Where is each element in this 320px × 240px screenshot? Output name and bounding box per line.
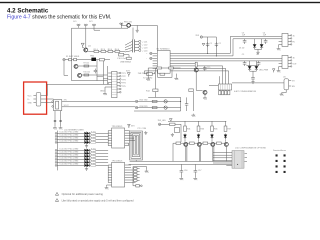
svg-text:C6: C6 <box>256 54 258 56</box>
wire Y1 out row2 <box>62 106 135 108</box>
diode D1 <box>254 39 256 45</box>
note symbol 1 <box>55 192 58 195</box>
test point TP1 <box>63 58 65 60</box>
svg-text:EN: EN <box>292 86 295 88</box>
wire config drop 2 <box>222 66 224 84</box>
capacitor C16 <box>180 171 184 177</box>
ground J5 <box>277 47 281 50</box>
svg-text:3V3: 3V3 <box>89 21 92 23</box>
capacitor C5 <box>243 61 247 66</box>
wire base ch1 <box>173 143 184 161</box>
svg-text:FB2: FB2 <box>90 56 95 58</box>
wire bus vertical a <box>96 60 98 81</box>
wire bus row1 right <box>177 52 231 54</box>
wire J7 spine <box>133 167 140 186</box>
pin Y1 left circles <box>52 101 54 103</box>
svg-text:+: + <box>146 53 148 55</box>
pins J5 right <box>288 35 290 44</box>
pin J2-1 <box>135 40 139 42</box>
diode array D7 <box>84 138 89 142</box>
pin circles J6 <box>291 57 292 58</box>
op-amp U1 body <box>157 50 170 73</box>
connector J3 body <box>112 71 117 97</box>
wire emitter ch1 <box>185 147 187 162</box>
capacitor C13 plates <box>59 120 61 121</box>
wire bus vertical b <box>102 61 104 84</box>
resistor R27 <box>91 159 96 161</box>
wire J1 top net <box>46 84 48 95</box>
wire decoup drop b <box>194 164 196 170</box>
wire row S8 <box>55 161 108 164</box>
capacitor C15 <box>203 66 206 71</box>
pins J6 left extra <box>279 64 282 67</box>
transistor Q1 <box>84 48 88 52</box>
svg-text:Figure 4-7 shows the schematic: Figure 4-7 shows the schematic for this … <box>7 14 111 20</box>
wire D18 to Q11 <box>225 139 227 141</box>
pin J3-3 <box>117 78 119 80</box>
resistor R3 <box>108 50 113 52</box>
ground J7 <box>145 170 149 173</box>
junction VCC b <box>216 55 217 56</box>
IC U2 body <box>112 128 125 148</box>
wire JP3 stub <box>94 28 100 30</box>
svg-text:3V3_LED: 3V3_LED <box>158 120 167 122</box>
resistor R21 <box>91 136 96 138</box>
wire D17 to Q10 <box>211 139 213 141</box>
resistor R22 <box>91 139 96 141</box>
legend square r4c2 <box>284 171 286 173</box>
ground X1 <box>171 133 174 136</box>
transistor Q4 <box>164 100 167 103</box>
wire VCC rail <box>203 36 217 38</box>
test point TP8 <box>158 123 160 125</box>
capacitor C1 <box>206 42 209 47</box>
pin U4 bottom <box>282 90 287 93</box>
wire midbox top <box>134 97 181 111</box>
svg-text:D-: D- <box>28 99 30 101</box>
resistor R37 <box>224 126 227 131</box>
connector J2 body bars <box>132 39 134 52</box>
test point TP7 <box>136 185 140 187</box>
svg-text:J6: J6 <box>293 57 295 59</box>
wire row S1 <box>55 135 108 138</box>
power flag 3V3 at J3 <box>127 73 130 77</box>
wire bus row6 <box>177 65 223 67</box>
wire LED ch4 drop <box>225 121 227 126</box>
svg-text:TPD12S521: TPD12S521 <box>112 126 124 128</box>
wire Y1 bottom drop b <box>60 111 62 127</box>
capacitor C10 <box>119 53 124 56</box>
svg-text:3V3: 3V3 <box>126 71 130 73</box>
wire TP1 row <box>65 59 110 61</box>
resistor R17 <box>195 62 197 67</box>
legend square r3c1 <box>276 165 278 167</box>
wire D1 D2 join <box>255 48 262 51</box>
pin U4 mid <box>289 85 292 87</box>
wire nest loop 4 <box>134 135 138 155</box>
pin J1 stubs <box>33 96 36 103</box>
pin J3-1 <box>117 72 119 74</box>
wire row S5 <box>55 152 108 155</box>
test point TP4 VCC <box>200 36 202 38</box>
ground probe b <box>175 77 179 80</box>
wire nest loop 2 <box>131 132 141 158</box>
svg-text:Denotes/Items: Denotes/Items <box>273 149 286 152</box>
wire probe loop <box>158 70 172 77</box>
pins J6 right <box>288 57 290 66</box>
transistor Q2 <box>74 64 78 68</box>
power flag U2 <box>128 124 131 128</box>
wire loop bottom <box>72 60 108 81</box>
wire regulator feed <box>232 82 284 84</box>
wire row S2 <box>55 138 108 141</box>
wire emitter ch3 <box>212 147 214 162</box>
ground U3 <box>105 186 109 189</box>
transistor Q7 <box>203 90 207 94</box>
wire VCC drop a <box>207 37 209 53</box>
capacitor C14 <box>185 102 188 107</box>
ground Q6 chain <box>192 114 196 117</box>
ground Q7 <box>203 96 207 99</box>
svg-text:U1 TUSB3410: U1 TUSB3410 <box>157 49 171 51</box>
jumper shunt JP5 <box>222 91 224 95</box>
connector J3 inner hatch <box>112 74 117 95</box>
resistor R20 <box>91 133 96 135</box>
diode array D5 <box>84 132 89 136</box>
wire D15 to Q8 <box>184 139 186 141</box>
wire D16 to Q9 <box>198 139 200 141</box>
jumper shunt JP4 <box>219 91 221 95</box>
wire D3 D4 join <box>250 70 257 78</box>
svg-text:TP2: TP2 <box>122 76 127 78</box>
svg-text:R35: R35 <box>214 128 217 130</box>
svg-text:U4: U4 <box>283 77 285 79</box>
power flag C1 <box>202 43 205 45</box>
ground nest <box>144 131 147 134</box>
connector J2 USB fanned pins <box>125 41 132 52</box>
wire bus row2 right <box>177 55 234 57</box>
wire Q6 emitter <box>196 72 202 90</box>
diode D3 <box>249 61 251 66</box>
wire bottom rail 1 <box>130 160 245 162</box>
wire L1 right to U1 top <box>137 25 157 50</box>
legend square r3c2 <box>284 165 286 167</box>
wire row S7 <box>55 158 108 161</box>
wire nest loop 5 <box>135 137 137 154</box>
wire config drop 4 <box>228 71 230 84</box>
wire row S3 <box>55 141 108 144</box>
wire EN row <box>161 124 181 142</box>
wire LED ch2 drop <box>198 121 200 126</box>
crystal Y2 body <box>147 72 152 75</box>
connector J1 body <box>36 93 41 106</box>
junction VCC a <box>207 53 208 54</box>
svg-text:1V8 PROBE: 1V8 PROBE <box>138 73 150 75</box>
svg-text:IN: IN <box>293 41 296 43</box>
svg-text:+ C21: + C21 <box>142 41 148 43</box>
svg-text:GND: GND <box>28 102 33 104</box>
svg-text:P2 / COM: P2 / COM <box>138 128 147 130</box>
wire LED diodes feed <box>246 64 258 66</box>
inductor L1 <box>127 24 131 28</box>
capacitor C6 <box>257 61 261 66</box>
transistor Q6 <box>194 68 198 72</box>
test point TP5 <box>135 100 137 102</box>
transistor Q10 <box>211 142 215 146</box>
svg-text:+ C24: + C24 <box>142 50 148 52</box>
wire U2 pins 6-7 join <box>128 143 130 146</box>
diode array D14 <box>84 164 89 168</box>
wire left vertical drop <box>71 28 73 59</box>
resistor R30 <box>170 123 176 125</box>
test point TP2 <box>150 52 152 54</box>
wire nest loop 1 <box>130 131 143 160</box>
resistor R18 <box>189 89 194 92</box>
wire R14 down <box>154 92 156 98</box>
connector J6 body <box>282 55 288 68</box>
capacitor C12 plates <box>54 120 56 121</box>
ground U4 <box>280 93 284 96</box>
wire bus row4 rail <box>177 60 283 62</box>
capacitor C2 <box>215 42 218 47</box>
ground LCD group1 <box>85 144 88 147</box>
pins U3 left <box>108 165 111 183</box>
transistor Q3 <box>78 73 82 77</box>
resistor R7 <box>127 57 132 59</box>
wire top supply rail <box>72 27 129 29</box>
legend square r2c2 <box>284 160 286 162</box>
svg-text:3V3: 3V3 <box>131 126 134 128</box>
wire Y1 bottom drop a <box>54 111 56 127</box>
svg-text:R37: R37 <box>228 128 231 130</box>
resistor R35 <box>211 126 214 131</box>
svg-text:3V3: 3V3 <box>195 35 199 37</box>
svg-text:GND: GND <box>100 90 105 92</box>
IC U3 body <box>112 162 125 187</box>
crystal Y1 body <box>53 100 61 111</box>
wire row S6 <box>55 155 108 158</box>
note symbol 2 <box>55 199 58 202</box>
pin J3-6 <box>117 88 119 90</box>
power flag LED rail <box>169 119 172 122</box>
wire rail2 turn up <box>233 39 282 56</box>
wire base ch2 <box>187 143 197 161</box>
svg-text:TPD12S521: TPD12S521 <box>112 161 124 163</box>
jumper shunt JP7 <box>228 91 230 95</box>
wire nest stubs <box>129 131 137 162</box>
svg-text:C10 0.1uF: C10 0.1uF <box>117 58 127 60</box>
legend square r1c2 <box>284 154 286 156</box>
svg-text:C16: C16 <box>184 170 187 172</box>
resistor R26 <box>91 156 96 158</box>
wire LCD bus spine <box>57 131 59 171</box>
ground probe a <box>146 78 150 81</box>
wire gnd b stub <box>175 74 177 77</box>
svg-text:OUT: OUT <box>293 63 298 65</box>
wire Q1 emitter row <box>88 50 125 52</box>
wire config left feed <box>209 85 218 87</box>
wire base ch4 <box>214 143 224 161</box>
resistor R32 base ch1 <box>176 142 181 144</box>
pin J2-2 <box>135 43 139 45</box>
pins U1 left <box>153 53 158 71</box>
svg-text:C2: C2 <box>218 43 220 45</box>
junction midbox <box>180 101 181 102</box>
svg-text:C5: C5 <box>242 54 244 56</box>
wire TP1 down <box>64 61 68 76</box>
wire J2 vertical feed <box>132 28 134 40</box>
diode array D6 <box>84 135 89 139</box>
legend square r1c1 <box>276 154 278 156</box>
svg-text:FB1 220: FB1 220 <box>124 21 133 23</box>
connector J7 pins <box>134 168 137 170</box>
wire bus row8 <box>177 70 229 72</box>
wire emitter ch2 <box>198 147 200 162</box>
ground Y1 a <box>53 126 57 129</box>
capacitor C4 <box>264 39 268 44</box>
ground J6 <box>277 69 281 72</box>
svg-text:J5: J5 <box>293 35 295 37</box>
ground C16 <box>180 177 184 180</box>
ground J3 <box>103 92 107 95</box>
capacitor C3 <box>243 39 247 44</box>
svg-text:TP4: TP4 <box>122 83 127 85</box>
wire gnd J7 stub <box>133 167 147 170</box>
svg-text:5V0: 5V0 <box>73 21 76 23</box>
resistor R8 <box>99 58 104 61</box>
ground Y1 b <box>59 126 63 129</box>
wire J1 VBUS out <box>41 84 108 95</box>
resistor R11 <box>157 67 162 69</box>
resistor R25 <box>91 153 96 155</box>
regulator U4 body <box>284 79 289 90</box>
svg-text:R9 10k: R9 10k <box>83 63 89 65</box>
wire row S4 <box>55 149 108 152</box>
pin J3-7 <box>117 91 119 93</box>
resistor R2 <box>101 50 106 52</box>
resistor R15 <box>152 100 157 102</box>
wire U3 left join <box>107 165 112 185</box>
wire feed b to pin <box>97 76 108 79</box>
wire C10 stub <box>124 55 129 60</box>
connector J5 body <box>282 33 288 46</box>
svg-text:C1: C1 <box>210 43 212 45</box>
wire bus row7 <box>177 67 226 69</box>
diode array D11 <box>84 155 89 159</box>
wire gnd U3 stub <box>106 185 108 186</box>
diode D2 <box>261 39 263 45</box>
wire VCC drop b <box>215 37 217 56</box>
wire row S0 <box>55 132 108 135</box>
pins J5 left extra <box>279 42 282 45</box>
wire row TXD <box>138 100 181 102</box>
resistor R16 <box>152 107 157 109</box>
wire Y2 links <box>144 71 154 74</box>
resistor R9 <box>84 65 89 67</box>
svg-text:XIN: XIN <box>64 99 68 101</box>
svg-text:Optional for additional power: Optional for additional power saving <box>62 192 104 196</box>
pin J2-3 <box>135 46 139 48</box>
legend square r4c1 <box>276 171 278 173</box>
test point TP6 <box>135 106 137 108</box>
svg-text:4-BIT CONFIGURATION: 4-BIT CONFIGURATION <box>234 90 257 93</box>
connector J8 inner <box>234 150 242 168</box>
wire J1 to Y1 a <box>41 99 54 102</box>
svg-text:TP1: TP1 <box>122 73 127 75</box>
svg-text:LED_PWR: LED_PWR <box>259 70 269 72</box>
jumper JP2 <box>84 24 87 28</box>
resistor R13 <box>160 73 165 75</box>
wire bus vertical c <box>106 66 108 84</box>
power flag LED <box>272 69 275 73</box>
svg-text:R31: R31 <box>187 128 190 130</box>
wire config drop 1 <box>219 76 221 84</box>
ground after L1 <box>136 29 139 32</box>
svg-text:R14: R14 <box>146 91 151 93</box>
diode array D13 <box>84 161 89 165</box>
crystal Y1 inner <box>56 101 59 109</box>
resistor R33 <box>197 126 200 131</box>
transistor Q11 <box>224 142 228 146</box>
resistor R34 base ch2 <box>190 142 195 144</box>
wire LED ch1 drop <box>184 121 186 126</box>
resistor R10 <box>84 74 89 76</box>
highlight red box <box>24 82 47 114</box>
svg-text:USB MINI-B: USB MINI-B <box>120 62 132 64</box>
oscillator X1 body <box>175 128 180 133</box>
wire L1 top feed <box>121 23 126 28</box>
svg-text:VO: VO <box>292 81 295 83</box>
wire rail1 turn up <box>230 36 282 53</box>
wire Q3 row <box>82 74 107 76</box>
svg-text:-: - <box>146 58 147 60</box>
ground LCD group2 <box>85 167 88 170</box>
junction J8 <box>237 164 238 165</box>
resistor R23 <box>91 142 96 144</box>
ground C7 <box>251 81 254 84</box>
svg-text:C17: C17 <box>198 170 201 172</box>
resistor R14 <box>153 89 158 92</box>
ferrite FB2 black body <box>91 58 96 61</box>
wire config drop 3 <box>225 68 227 84</box>
capacitor C17 <box>194 171 198 177</box>
wire gnd J6 stub <box>278 67 280 70</box>
pins U2 right <box>125 131 129 146</box>
wire L1 to ground stub <box>131 25 137 29</box>
svg-text:R10 10k: R10 10k <box>83 72 90 74</box>
resistor R29 <box>91 165 96 167</box>
pin J3-4 <box>117 82 119 84</box>
legend square r2c1 <box>276 160 278 162</box>
wire vertical to Q1 <box>85 28 87 47</box>
transistor Q8 <box>184 142 188 146</box>
pins U1 right <box>170 53 176 71</box>
wire Q7 emitter <box>204 95 206 97</box>
svg-text:+ C22: + C22 <box>142 44 148 46</box>
svg-text:TP3: TP3 <box>122 79 127 81</box>
wire bus row3 rail <box>177 57 283 59</box>
svg-text:LCD CONFIGURATION OPTIONS: LCD CONFIGURATION OPTIONS <box>235 146 266 149</box>
wire row RXD <box>138 107 181 109</box>
diode array D10 <box>84 152 89 156</box>
page top rule <box>0 2 320 3</box>
svg-text:Like fully rated or special pi: Like fully rated or special pins supply … <box>62 199 135 202</box>
connector J8 body <box>232 151 244 169</box>
jumper JP1 <box>77 24 80 28</box>
diode array D9 <box>84 149 89 153</box>
wire probe top <box>148 67 180 69</box>
jumper JP3 <box>92 24 95 28</box>
